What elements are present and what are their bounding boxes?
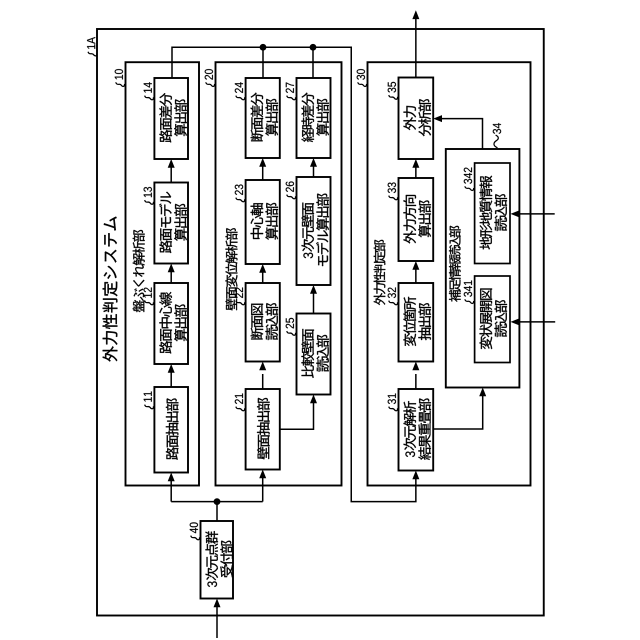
system label 外力性判定システム [103,217,118,362]
label 40 [190,522,200,539]
box 27 経時差分算出部 [297,78,331,158]
wire 12 to 13 [170,271,172,283]
wire 11 to 12 [170,372,172,388]
label 25 [286,318,296,335]
container 10 盤ぶくれ解析部 [126,62,200,485]
label 26 [286,181,296,198]
label 10 [115,69,125,86]
label 12 [144,288,154,305]
box 22 断面図読込部 [246,283,280,362]
label 24 [235,82,245,99]
container 30 外力性判定部 [368,62,531,485]
bus wire 14 24 27 to 31 [172,47,416,501]
wire 33 to 35 [415,168,417,179]
label 32 [388,288,398,305]
wire input to 342 [518,213,555,215]
box 35 外力分析部 [399,78,434,160]
box 342 地形地質情報読込部 [475,163,510,264]
box 11 路面抽出部 [154,387,188,473]
label 342 [464,168,474,191]
container 10 title 盤ぶくれ解析部 [133,230,145,312]
container 20 title 壁面変位解析部 [225,228,237,310]
label 23 [235,184,245,201]
wire 22 to 23 [262,272,264,284]
wire 32 to 33 [415,269,417,283]
label 1A [87,37,97,56]
wire 25 to 26 [313,293,315,314]
wire input to 40 [216,607,218,639]
wire 31 to 32 [415,374,417,389]
wire input to 341 [518,321,555,323]
box 26 3次元壁面モデル算出部 [297,177,331,285]
box 32 変位箇所抽出部 [399,283,434,362]
wire 40 to 21 [262,478,264,502]
box 31 3次元解析結果重畳部 [399,389,434,471]
wire 34 to 35 [441,119,483,149]
wire 31 to 34 [433,395,483,429]
container 34 title 補足情報読込部 [449,226,461,302]
box 24 断面差分算出部 [246,78,280,158]
label 20 [205,69,215,86]
box 33 外力方向算出部 [399,178,434,261]
box 341 変状展開図読込部 [475,276,510,363]
label 13 [144,187,154,204]
container 34 補足情報読込部 [446,149,520,388]
label 27 [286,83,296,100]
junction dot 40 [214,498,221,505]
box 25 比較壁面読込部 [297,314,331,395]
label 30 [357,69,367,86]
label 341 [464,281,474,304]
bus stub 24 [262,47,264,78]
wire 40 to 11 [170,481,172,502]
box 40 3次元点群受付部 [201,521,234,599]
label 22 [235,288,245,305]
bus junction dot 27 [310,44,317,51]
bus junction dot 24 [260,44,267,51]
label 34 [493,123,501,148]
label 31 [388,394,398,411]
box 21 壁面抽出部 [246,389,280,470]
container 30 title 外力性判定部 [374,240,386,305]
label 21 [235,394,245,411]
box 23 中心軸算出部 [246,180,280,264]
label 11 [144,392,154,409]
box 13 路面モデル算出部 [154,183,188,264]
label 14 [144,82,154,99]
label 33 [388,182,398,199]
bus stub 27 [312,47,314,78]
wire 26 to 27 [313,166,315,178]
wire 21 to 25 [280,402,314,429]
outer frame 外力性判定システム 1A [97,29,544,616]
wire 21 to 22 [262,374,264,389]
box 14 路面差分算出部 [154,78,188,159]
label 35 [388,82,398,99]
wire 13 to 14 [170,167,172,183]
wire 23 to 24 [262,166,264,181]
container 20 壁面変位解析部 [216,62,342,485]
wire 40 trunk [216,502,218,521]
wire 35 output [415,19,417,78]
box 12 路面中心線算出部 [154,283,188,364]
